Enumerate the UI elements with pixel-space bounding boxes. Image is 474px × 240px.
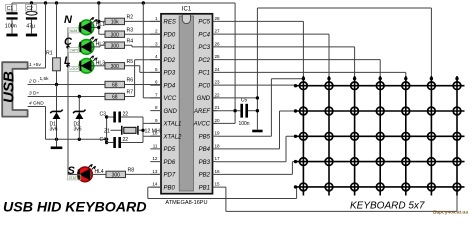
key switch S57: [453, 183, 461, 191]
key switch S55: [402, 183, 410, 191]
svg-text:1 +5v: 1 +5v: [29, 62, 41, 68]
svg-text:C1: C1: [7, 6, 14, 12]
svg-text:R3: R3: [127, 27, 134, 33]
svg-text:22: 22: [215, 92, 221, 97]
svg-text:10k: 10k: [111, 20, 120, 26]
matrix row junction dots: [294, 84, 297, 189]
key switch S31: [300, 132, 308, 140]
svg-text:C2: C2: [26, 6, 33, 12]
capacitor C5 100n: [238, 98, 249, 128]
key switch S44: [376, 158, 384, 166]
key switch S51: [300, 183, 308, 191]
svg-text:10: 10: [152, 131, 158, 136]
svg-text:ATMEGA8-16PU: ATMEGA8-16PU: [165, 200, 207, 206]
resistor R7 68: [105, 93, 125, 99]
wire Z1 junction vertical: [142, 123, 144, 136]
wire PC1 pin24 to column 5: [217, 72, 406, 77]
svg-text:23: 23: [215, 80, 221, 85]
ground symbol: [56, 139, 58, 146]
svg-text:VCC: VCC: [164, 96, 177, 102]
svg-text:21: 21: [215, 105, 221, 110]
key switch S12: [325, 82, 333, 90]
svg-text:PB3: PB3: [199, 160, 211, 166]
svg-text:12: 12: [152, 156, 158, 161]
svg-text:PC2: PC2: [198, 58, 210, 64]
key switch S42: [325, 158, 333, 166]
svg-text:3v6: 3v6: [50, 127, 58, 133]
resistor R1 1.5k: [40, 3, 61, 85]
capacitor C3 22: [100, 111, 144, 122]
svg-text:PD0: PD0: [164, 32, 176, 38]
svg-text:16: 16: [215, 169, 221, 174]
svg-text:KEYBOARD 5x7: KEYBOARD 5x7: [350, 201, 425, 212]
wire C3 to XTAL1 pin9: [143, 117, 161, 123]
svg-text:22: 22: [123, 137, 129, 143]
key switch S11: [300, 82, 308, 90]
svg-text:3v6: 3v6: [74, 127, 82, 133]
resistor R3 300: [105, 31, 125, 37]
svg-text:PB0: PB0: [164, 185, 176, 191]
wire R6 to pin6: [125, 84, 162, 86]
wire rail to AVCC pin20: [213, 3, 236, 123]
svg-text:2: 2: [155, 29, 158, 34]
svg-text:11: 11: [153, 143, 158, 148]
keyboard matrix column lines: [303, 76, 457, 196]
svg-text:5: 5: [155, 67, 158, 72]
wire R5 to pin5: [125, 66, 162, 73]
svg-text:14: 14: [152, 182, 158, 187]
key switch S43: [351, 158, 359, 166]
svg-text:100n: 100n: [5, 23, 17, 29]
key switch S26: [428, 107, 436, 115]
IC1 pin stubs numbers and names: [150, 16, 220, 191]
wire PB3 pin17 to row 3: [217, 136, 296, 161]
svg-text:R2: R2: [127, 15, 134, 21]
resistor R2 10k: [105, 18, 125, 24]
svg-text:300: 300: [111, 32, 120, 38]
wire HL2 to R4: [94, 45, 105, 47]
key switch S34: [376, 132, 384, 140]
key switch S22: [325, 107, 333, 115]
resistor R6 68: [105, 81, 125, 87]
key switch S52: [325, 183, 333, 191]
svg-text:R6: R6: [127, 78, 134, 84]
key switch S45: [402, 158, 410, 166]
svg-text:PC5: PC5: [198, 20, 210, 26]
svg-text:100n: 100n: [238, 121, 249, 127]
svg-text:Барсучок.at.ua: Барсучок.at.ua: [433, 210, 468, 216]
wire PB0 pin14 bottom route to row 5: [148, 187, 297, 199]
svg-text:PD4: PD4: [164, 83, 176, 89]
key switch S14: [376, 82, 384, 90]
svg-text:18: 18: [215, 143, 221, 148]
resistor R4 300: [105, 42, 125, 48]
LED HL3 LOCK green: [64, 55, 105, 73]
svg-text:RES: RES: [164, 20, 176, 26]
svg-text:26: 26: [215, 41, 221, 46]
wire AREF pin21 to C5: [213, 110, 241, 112]
svg-text:4 GND: 4 GND: [29, 100, 44, 106]
keyboard matrix row lines: [296, 86, 465, 187]
svg-text:STATUS: STATUS: [69, 176, 83, 180]
svg-text:USB: USB: [1, 71, 18, 103]
key switch S56: [428, 183, 436, 191]
svg-text:68: 68: [112, 83, 118, 89]
svg-text:XTAL2: XTAL2: [163, 134, 183, 140]
capacitor C2 47u electrolytic: [25, 3, 37, 36]
svg-text:AREF: AREF: [193, 109, 210, 115]
key switch S21: [300, 107, 308, 115]
svg-text:NUM: NUM: [70, 29, 78, 33]
key switch S41: [300, 158, 308, 166]
svg-text:24: 24: [215, 67, 221, 72]
svg-text:L: L: [64, 55, 71, 67]
svg-text:300: 300: [112, 173, 121, 179]
svg-text:19: 19: [215, 131, 221, 136]
svg-text:N: N: [64, 14, 73, 26]
USB connector X1: [1, 62, 28, 116]
svg-text:3 D+: 3 D+: [29, 90, 39, 96]
wire R7 up to pin4: [125, 60, 162, 97]
svg-text:R8: R8: [128, 168, 135, 174]
wire HL3 to R5: [94, 65, 105, 67]
zener diode D2 3v6: [73, 95, 85, 140]
wire HL4 to R8: [92, 173, 106, 175]
wire C4 to XTAL2 pin10: [143, 136, 161, 142]
svg-text:15: 15: [215, 182, 221, 187]
capacitor C1 100n: [5, 3, 18, 36]
resistor R5 300: [105, 63, 125, 69]
wire GND pin22: [213, 97, 258, 99]
svg-text:8: 8: [155, 105, 158, 110]
svg-text:R4: R4: [127, 38, 134, 44]
svg-text:PD1: PD1: [164, 45, 176, 51]
svg-text:PD7: PD7: [164, 173, 176, 179]
svg-text:4: 4: [155, 54, 158, 59]
wire PB5 pin19 to column 1 top: [217, 79, 304, 137]
svg-text:1,5k: 1,5k: [40, 76, 50, 82]
wire PC4 pin27 to column 2: [217, 34, 329, 77]
wire USB D+ line: [28, 96, 105, 98]
ground symbol near C5: [252, 130, 262, 133]
svg-text:C3: C3: [100, 111, 107, 117]
svg-text:LOCK: LOCK: [70, 67, 80, 71]
wire LED common bus: [67, 27, 69, 174]
wire PC5 pin28 to column 1: [217, 21, 304, 77]
svg-text:3: 3: [155, 41, 158, 46]
svg-text:300: 300: [111, 64, 120, 70]
wire PC0 pin23 to row 1: [217, 84, 296, 86]
svg-text:68: 68: [112, 95, 118, 101]
key switch S46: [428, 158, 436, 166]
svg-text:CAPS: CAPS: [70, 48, 80, 52]
crystal Z1 12 MHz: [104, 126, 163, 135]
svg-text:PC1: PC1: [198, 71, 210, 77]
key switch S24: [376, 107, 384, 115]
svg-text:PC4: PC4: [198, 32, 210, 38]
key switch S47: [453, 158, 461, 166]
wire USB GND down to ground bus: [28, 107, 46, 140]
svg-text:9: 9: [155, 118, 158, 123]
svg-text:27: 27: [215, 29, 221, 34]
svg-text:25: 25: [215, 54, 221, 59]
svg-text:7: 7: [155, 92, 158, 97]
svg-text:PD2: PD2: [164, 58, 176, 64]
svg-text:GND: GND: [197, 96, 211, 102]
key switch S54: [376, 183, 384, 191]
svg-text:AVCC: AVCC: [193, 122, 211, 128]
svg-text:PD5: PD5: [164, 147, 176, 153]
wire R4 to pin3: [125, 45, 162, 47]
key switch S17: [453, 82, 461, 90]
wire ground bus: [46, 138, 107, 140]
wire C3/C4 left bus: [106, 117, 108, 143]
svg-text:300: 300: [111, 43, 120, 49]
svg-text:17: 17: [215, 156, 221, 161]
key switch S35: [402, 132, 410, 140]
svg-text:1: 1: [155, 16, 158, 21]
LED HL4 STATUS red: [67, 164, 104, 181]
wire +5V top rail: [12, 2, 235, 4]
svg-text:IC1: IC1: [182, 7, 192, 13]
svg-text:2 D -: 2 D -: [28, 78, 40, 84]
key switch S33: [351, 132, 359, 140]
svg-text:R5: R5: [127, 59, 134, 65]
wire rail to R2 R3 HL1: [94, 3, 105, 34]
svg-text:C4: C4: [100, 137, 107, 143]
wire PC3 pin26 to column 3: [217, 47, 355, 77]
wire R2 to pin1: [125, 20, 162, 22]
svg-text:PB4: PB4: [199, 147, 211, 153]
key switch S16: [428, 82, 436, 90]
svg-text:Z1: Z1: [104, 128, 110, 134]
svg-text:C: C: [64, 36, 73, 48]
capacitor C4 22: [100, 137, 144, 148]
resistor R8 300: [106, 171, 126, 177]
wire rail to VCC pin7: [143, 3, 161, 98]
svg-text:PB5: PB5: [199, 134, 211, 140]
svg-text:R7: R7: [127, 90, 134, 96]
wire PB2 pin16 to row 4: [217, 162, 296, 175]
svg-text:22: 22: [123, 111, 129, 117]
matrix column junction dots: [302, 77, 459, 80]
wire PC0-area vertical to top and col6: [257, 8, 431, 130]
svg-text:20: 20: [215, 118, 221, 123]
LED HL1 NUM green: [64, 14, 105, 35]
svg-text:6: 6: [155, 80, 158, 85]
wire PB4 pin18 to row 2: [217, 111, 296, 149]
svg-text:GND: GND: [164, 109, 178, 115]
key switch S25: [402, 107, 410, 115]
svg-text:PB1: PB1: [199, 185, 210, 191]
wire USB D- line: [28, 84, 105, 86]
LED HL2 CAPS green: [64, 36, 105, 54]
wire R8 to pin13: [126, 173, 162, 175]
wire PB1 pin15 bottom route to column 7: [217, 187, 457, 211]
key switch S36: [428, 132, 436, 140]
op-amp style DIP body IC1 ATMEGA8-16PU: [161, 7, 213, 206]
svg-text:PD3: PD3: [164, 71, 176, 77]
svg-text:XTAL1: XTAL1: [163, 122, 182, 128]
key switch S15: [402, 82, 410, 90]
svg-text:PC3: PC3: [198, 45, 210, 51]
wire bus to HL4: [68, 173, 78, 175]
svg-text:PD6: PD6: [164, 160, 176, 166]
wire C5 to ground: [248, 110, 257, 112]
svg-text:28: 28: [215, 16, 221, 21]
zener diode D1 3v6: [50, 85, 63, 140]
svg-text:PB2: PB2: [199, 173, 211, 179]
svg-text:PC0: PC0: [198, 83, 210, 89]
key switch S23: [351, 107, 359, 115]
key switch S37: [453, 132, 461, 140]
junction dots on +5V rail: [30, 1, 33, 4]
svg-text:47µ: 47µ: [26, 23, 35, 29]
wire PC2 pin25 to column 4: [217, 60, 381, 77]
svg-text:13: 13: [152, 169, 158, 174]
key switch S53: [351, 183, 359, 191]
svg-text:USB HID KEYBOARD: USB HID KEYBOARD: [3, 200, 146, 216]
svg-text:R1: R1: [46, 51, 53, 57]
key switch S32: [325, 132, 333, 140]
wire USB +5v to rail: [28, 3, 46, 68]
key switch S13: [351, 82, 359, 90]
key switch S27: [453, 107, 461, 115]
wire R3 to pin2: [125, 33, 162, 35]
